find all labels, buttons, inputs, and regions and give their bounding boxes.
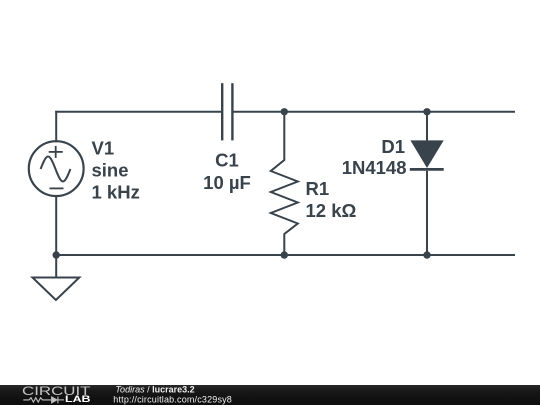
capacitor C1 [222,83,232,140]
wire left vertical below source [55,196,57,278]
logo circuit drawing [23,397,64,404]
wire top-left horizontal [56,111,221,113]
svg-text:C1: C1 [215,149,239,170]
svg-text:12 kΩ: 12 kΩ [306,200,357,221]
node dot bottom R1 [281,251,288,258]
svg-text:1N4148: 1N4148 [342,157,407,178]
svg-text:sine: sine [92,160,129,181]
svg-text:R1: R1 [306,178,330,199]
node dot top R1 [281,108,288,115]
label D1 [342,136,407,178]
node dot top D1 [423,108,430,115]
wire left vertical above source [55,112,57,142]
svg-text:1 kHz: 1 kHz [92,182,140,203]
wire bottom horizontal [56,254,514,256]
svg-text:V1: V1 [92,138,115,159]
node dot bottom D1 [423,251,430,258]
svg-text:http://circuitlab.com/c329sy8: http://circuitlab.com/c329sy8 [113,394,232,404]
svg-text:LAB: LAB [65,394,91,404]
diode D1 [410,112,444,255]
svg-text:Todiras / lucrare3.2: Todiras / lucrare3.2 [115,385,194,395]
node dot ground [53,251,60,258]
svg-text:D1: D1 [381,136,405,157]
wire top-right horizontal [234,111,515,113]
resistor R1 [271,112,298,255]
label C1 [203,149,251,193]
label V1 [92,138,140,203]
footer bar [0,385,540,405]
label R1 [306,178,357,221]
voltage source V1 [29,141,84,196]
svg-text:10 µF: 10 µF [203,172,251,193]
ground [33,278,80,301]
